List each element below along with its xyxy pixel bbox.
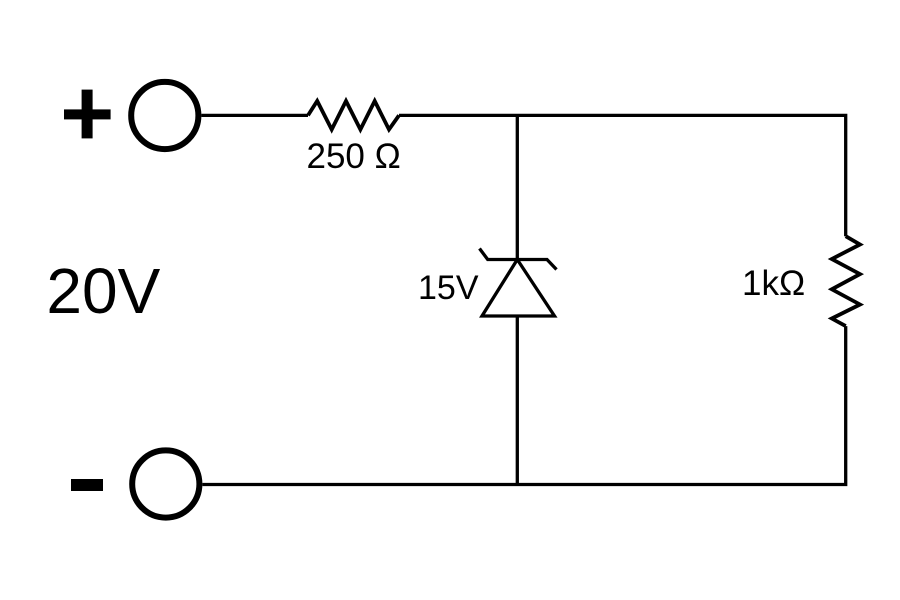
svg-text:250 Ω: 250 Ω <box>307 137 401 176</box>
svg-text:15V: 15V <box>418 269 479 307</box>
svg-text:20V: 20V <box>46 255 160 327</box>
svg-text:1kΩ: 1kΩ <box>742 264 805 303</box>
